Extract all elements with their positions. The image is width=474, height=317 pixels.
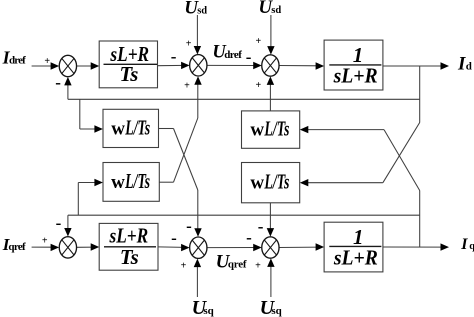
svg-text:L/Ts: L/Ts bbox=[264, 117, 290, 141]
svg-text:+: + bbox=[255, 260, 261, 271]
svg-text:q: q bbox=[469, 241, 474, 252]
svg-text:-: - bbox=[56, 213, 62, 232]
svg-text:+: + bbox=[255, 36, 261, 47]
svg-text:sq: sq bbox=[203, 305, 214, 317]
svg-text:+: + bbox=[186, 39, 192, 50]
svg-text:qref: qref bbox=[8, 241, 26, 253]
svg-text:L/Ts: L/Ts bbox=[264, 170, 290, 194]
svg-text:-: - bbox=[246, 228, 252, 247]
svg-text:Ts: Ts bbox=[119, 62, 138, 86]
svg-text:-: - bbox=[258, 217, 264, 236]
svg-text:sd: sd bbox=[271, 5, 281, 16]
svg-text:Ts: Ts bbox=[120, 245, 139, 269]
svg-text:qref: qref bbox=[228, 259, 247, 271]
svg-text:-: - bbox=[55, 73, 61, 92]
svg-text:-: - bbox=[246, 47, 252, 66]
svg-text:+: + bbox=[44, 56, 50, 67]
svg-text:I: I bbox=[460, 236, 468, 253]
svg-text:dref: dref bbox=[224, 49, 242, 61]
svg-text:-: - bbox=[186, 217, 192, 236]
svg-text:w: w bbox=[250, 120, 264, 141]
svg-text:sL+R: sL+R bbox=[333, 246, 378, 270]
svg-text:dref: dref bbox=[9, 54, 26, 66]
svg-text:w: w bbox=[111, 119, 125, 140]
svg-text:w: w bbox=[111, 172, 125, 193]
svg-text:sL+R: sL+R bbox=[109, 223, 149, 247]
svg-text:+: + bbox=[256, 80, 262, 91]
svg-text:L/Ts: L/Ts bbox=[124, 169, 150, 193]
svg-text:w: w bbox=[250, 173, 264, 194]
svg-text:+: + bbox=[181, 260, 187, 271]
svg-text:sq: sq bbox=[271, 305, 282, 317]
svg-text:sd: sd bbox=[197, 6, 207, 17]
svg-text:-: - bbox=[171, 47, 177, 66]
svg-text:+: + bbox=[42, 236, 48, 247]
svg-text:sL+R: sL+R bbox=[333, 64, 378, 88]
svg-text:I: I bbox=[457, 54, 466, 75]
svg-text:L/Ts: L/Ts bbox=[125, 116, 151, 140]
svg-text:+: + bbox=[184, 81, 190, 92]
svg-text:d: d bbox=[466, 61, 472, 73]
svg-text:-: - bbox=[171, 229, 177, 248]
